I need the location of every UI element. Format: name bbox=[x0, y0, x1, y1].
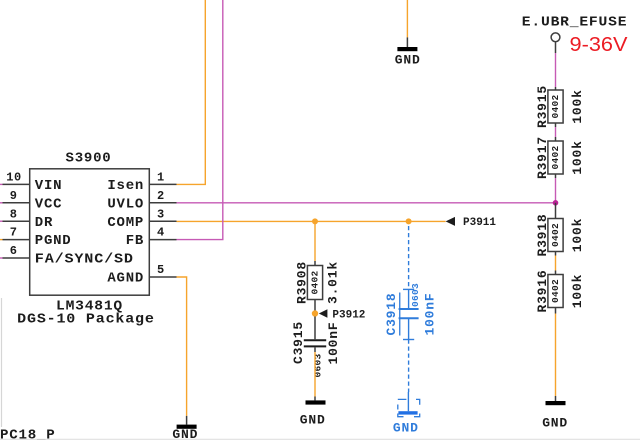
test point P3911 bbox=[446, 217, 497, 229]
svg-text:6: 6 bbox=[10, 244, 18, 258]
svg-text:2: 2 bbox=[157, 189, 165, 203]
svg-text:8: 8 bbox=[10, 207, 18, 221]
svg-text:5: 5 bbox=[157, 263, 165, 277]
node junction COMP/C3918 bbox=[406, 218, 412, 224]
svg-text:GND: GND bbox=[393, 420, 419, 435]
svg-text:P3912: P3912 bbox=[332, 309, 365, 321]
capacitor C3915 bbox=[291, 321, 341, 378]
svg-text:GND: GND bbox=[300, 413, 326, 428]
IC U S3900 LM3481Q body bbox=[17, 151, 155, 328]
pin 5 AGND bbox=[107, 263, 176, 287]
svg-text:UVLO: UVLO bbox=[107, 196, 144, 212]
svg-text:100k: 100k bbox=[570, 89, 585, 123]
svg-text:P3911: P3911 bbox=[463, 217, 496, 229]
svg-text:R3916: R3916 bbox=[535, 269, 550, 312]
svg-text:1: 1 bbox=[157, 171, 165, 185]
ground GND (top) bbox=[395, 37, 421, 67]
test point P3912 bbox=[312, 309, 366, 321]
pin 4 FB bbox=[126, 226, 177, 250]
capacitor C3918 (DNP, blue) bbox=[384, 283, 437, 336]
wire COMP net (orange horizontal) bbox=[177, 220, 446, 222]
wire R3916 to ground (orange) bbox=[555, 308, 557, 397]
svg-text:VIN: VIN bbox=[35, 178, 62, 194]
pin 7 PGND bbox=[0, 226, 71, 250]
svg-text:GND: GND bbox=[395, 52, 421, 67]
svg-text:100k: 100k bbox=[570, 140, 585, 174]
wire P3912 to C3915 bbox=[314, 317, 316, 340]
wire circle to R3915 (pink) bbox=[555, 42, 557, 90]
svg-text:0603: 0603 bbox=[313, 353, 324, 377]
svg-text:COMP: COMP bbox=[107, 215, 144, 231]
pin 8 DR bbox=[0, 207, 53, 231]
svg-text:GND: GND bbox=[542, 415, 568, 430]
wire Isen to top (orange) bbox=[177, 0, 206, 184]
node junction COMP/R3908 bbox=[312, 218, 318, 224]
pin 6 FA/SYNC/SD bbox=[0, 244, 134, 268]
svg-text:PC18_P: PC18_P bbox=[0, 427, 56, 440]
wire R3915 to R3917 (pink) bbox=[555, 123, 557, 141]
svg-text:E.UBR_EFUSE: E.UBR_EFUSE bbox=[522, 14, 628, 30]
svg-text:0402: 0402 bbox=[550, 223, 561, 247]
svg-text:0402: 0402 bbox=[550, 279, 561, 303]
svg-text:7: 7 bbox=[10, 226, 18, 240]
pin 9 VCC bbox=[0, 189, 62, 213]
svg-text:VCC: VCC bbox=[35, 196, 62, 212]
svg-text:100nF: 100nF bbox=[326, 321, 341, 364]
wire R3918 to R3916 (orange) bbox=[555, 252, 557, 275]
wire junction to R3918 (dark) bbox=[555, 203, 557, 219]
svg-text:R3918: R3918 bbox=[535, 213, 550, 256]
resistor R3908 bbox=[295, 261, 341, 314]
ground GND (C3918, DNP blue) bbox=[393, 392, 420, 435]
ground GND (divider) bbox=[542, 396, 568, 430]
wire R3917 to junction (pink) bbox=[555, 174, 557, 203]
svg-text:9: 9 bbox=[10, 189, 18, 203]
svg-text:Isen: Isen bbox=[107, 178, 144, 194]
svg-text:R3917: R3917 bbox=[535, 136, 550, 179]
wire C3918 DNP lead upper (blue dashed) bbox=[403, 226, 414, 308]
sheet border bottom bbox=[0, 438, 640, 440]
svg-text:100k: 100k bbox=[570, 274, 585, 308]
svg-text:R3915: R3915 bbox=[535, 85, 550, 128]
pin 3 COMP bbox=[107, 207, 176, 231]
svg-text:FB: FB bbox=[126, 233, 144, 249]
wire FB to top (magenta) bbox=[177, 0, 223, 240]
svg-text:S3900: S3900 bbox=[66, 151, 112, 167]
svg-text:C3915: C3915 bbox=[291, 321, 306, 364]
svg-text:C3918: C3918 bbox=[384, 292, 399, 335]
svg-text:0603: 0603 bbox=[410, 283, 421, 307]
pin 1 Isen bbox=[107, 171, 176, 195]
resistor R3917 bbox=[535, 136, 585, 179]
svg-text:100k: 100k bbox=[570, 218, 585, 252]
svg-text:0402: 0402 bbox=[550, 145, 561, 169]
connector pin E.UBR_EFUSE (open circle) bbox=[551, 33, 560, 42]
resistor R3915 bbox=[535, 85, 585, 128]
resistor R3918 bbox=[535, 213, 585, 256]
svg-text:3: 3 bbox=[157, 207, 165, 221]
svg-text:0402: 0402 bbox=[310, 270, 321, 294]
wire top GND drop (orange) bbox=[406, 0, 408, 37]
svg-text:R3908: R3908 bbox=[295, 261, 310, 304]
wire UVLO net (magenta horizontal) bbox=[177, 202, 556, 204]
node junction UVLO divider bbox=[553, 200, 559, 206]
svg-text:100nF: 100nF bbox=[423, 292, 438, 335]
svg-text:3.01k: 3.01k bbox=[326, 261, 341, 304]
wire COMP to R3908 (orange) bbox=[314, 221, 316, 261]
svg-text:GND: GND bbox=[172, 427, 198, 440]
wire AGND to ground (orange) bbox=[177, 277, 187, 416]
ground GND (C3915) bbox=[300, 397, 326, 428]
svg-text:AGND: AGND bbox=[107, 271, 144, 287]
svg-text:FA/SYNC/SD: FA/SYNC/SD bbox=[35, 252, 134, 268]
svg-text:DGS-10 Package: DGS-10 Package bbox=[17, 311, 155, 327]
wire C3918 DNP lead lower (blue dashed) bbox=[403, 318, 414, 392]
svg-text:DR: DR bbox=[35, 215, 53, 231]
svg-text:0402: 0402 bbox=[550, 94, 561, 118]
svg-text:9-36V: 9-36V bbox=[570, 33, 628, 56]
pin 10 VIN bbox=[0, 171, 62, 195]
ground GND (pin5) bbox=[172, 416, 198, 440]
svg-text:4: 4 bbox=[157, 226, 165, 240]
pin 2 UVLO bbox=[107, 189, 176, 213]
sheet border left bbox=[1, 298, 3, 427]
svg-text:PGND: PGND bbox=[35, 233, 72, 249]
wire C3915 to ground (orange) bbox=[314, 352, 316, 397]
svg-text:10: 10 bbox=[6, 171, 21, 185]
resistor R3916 bbox=[535, 269, 585, 312]
